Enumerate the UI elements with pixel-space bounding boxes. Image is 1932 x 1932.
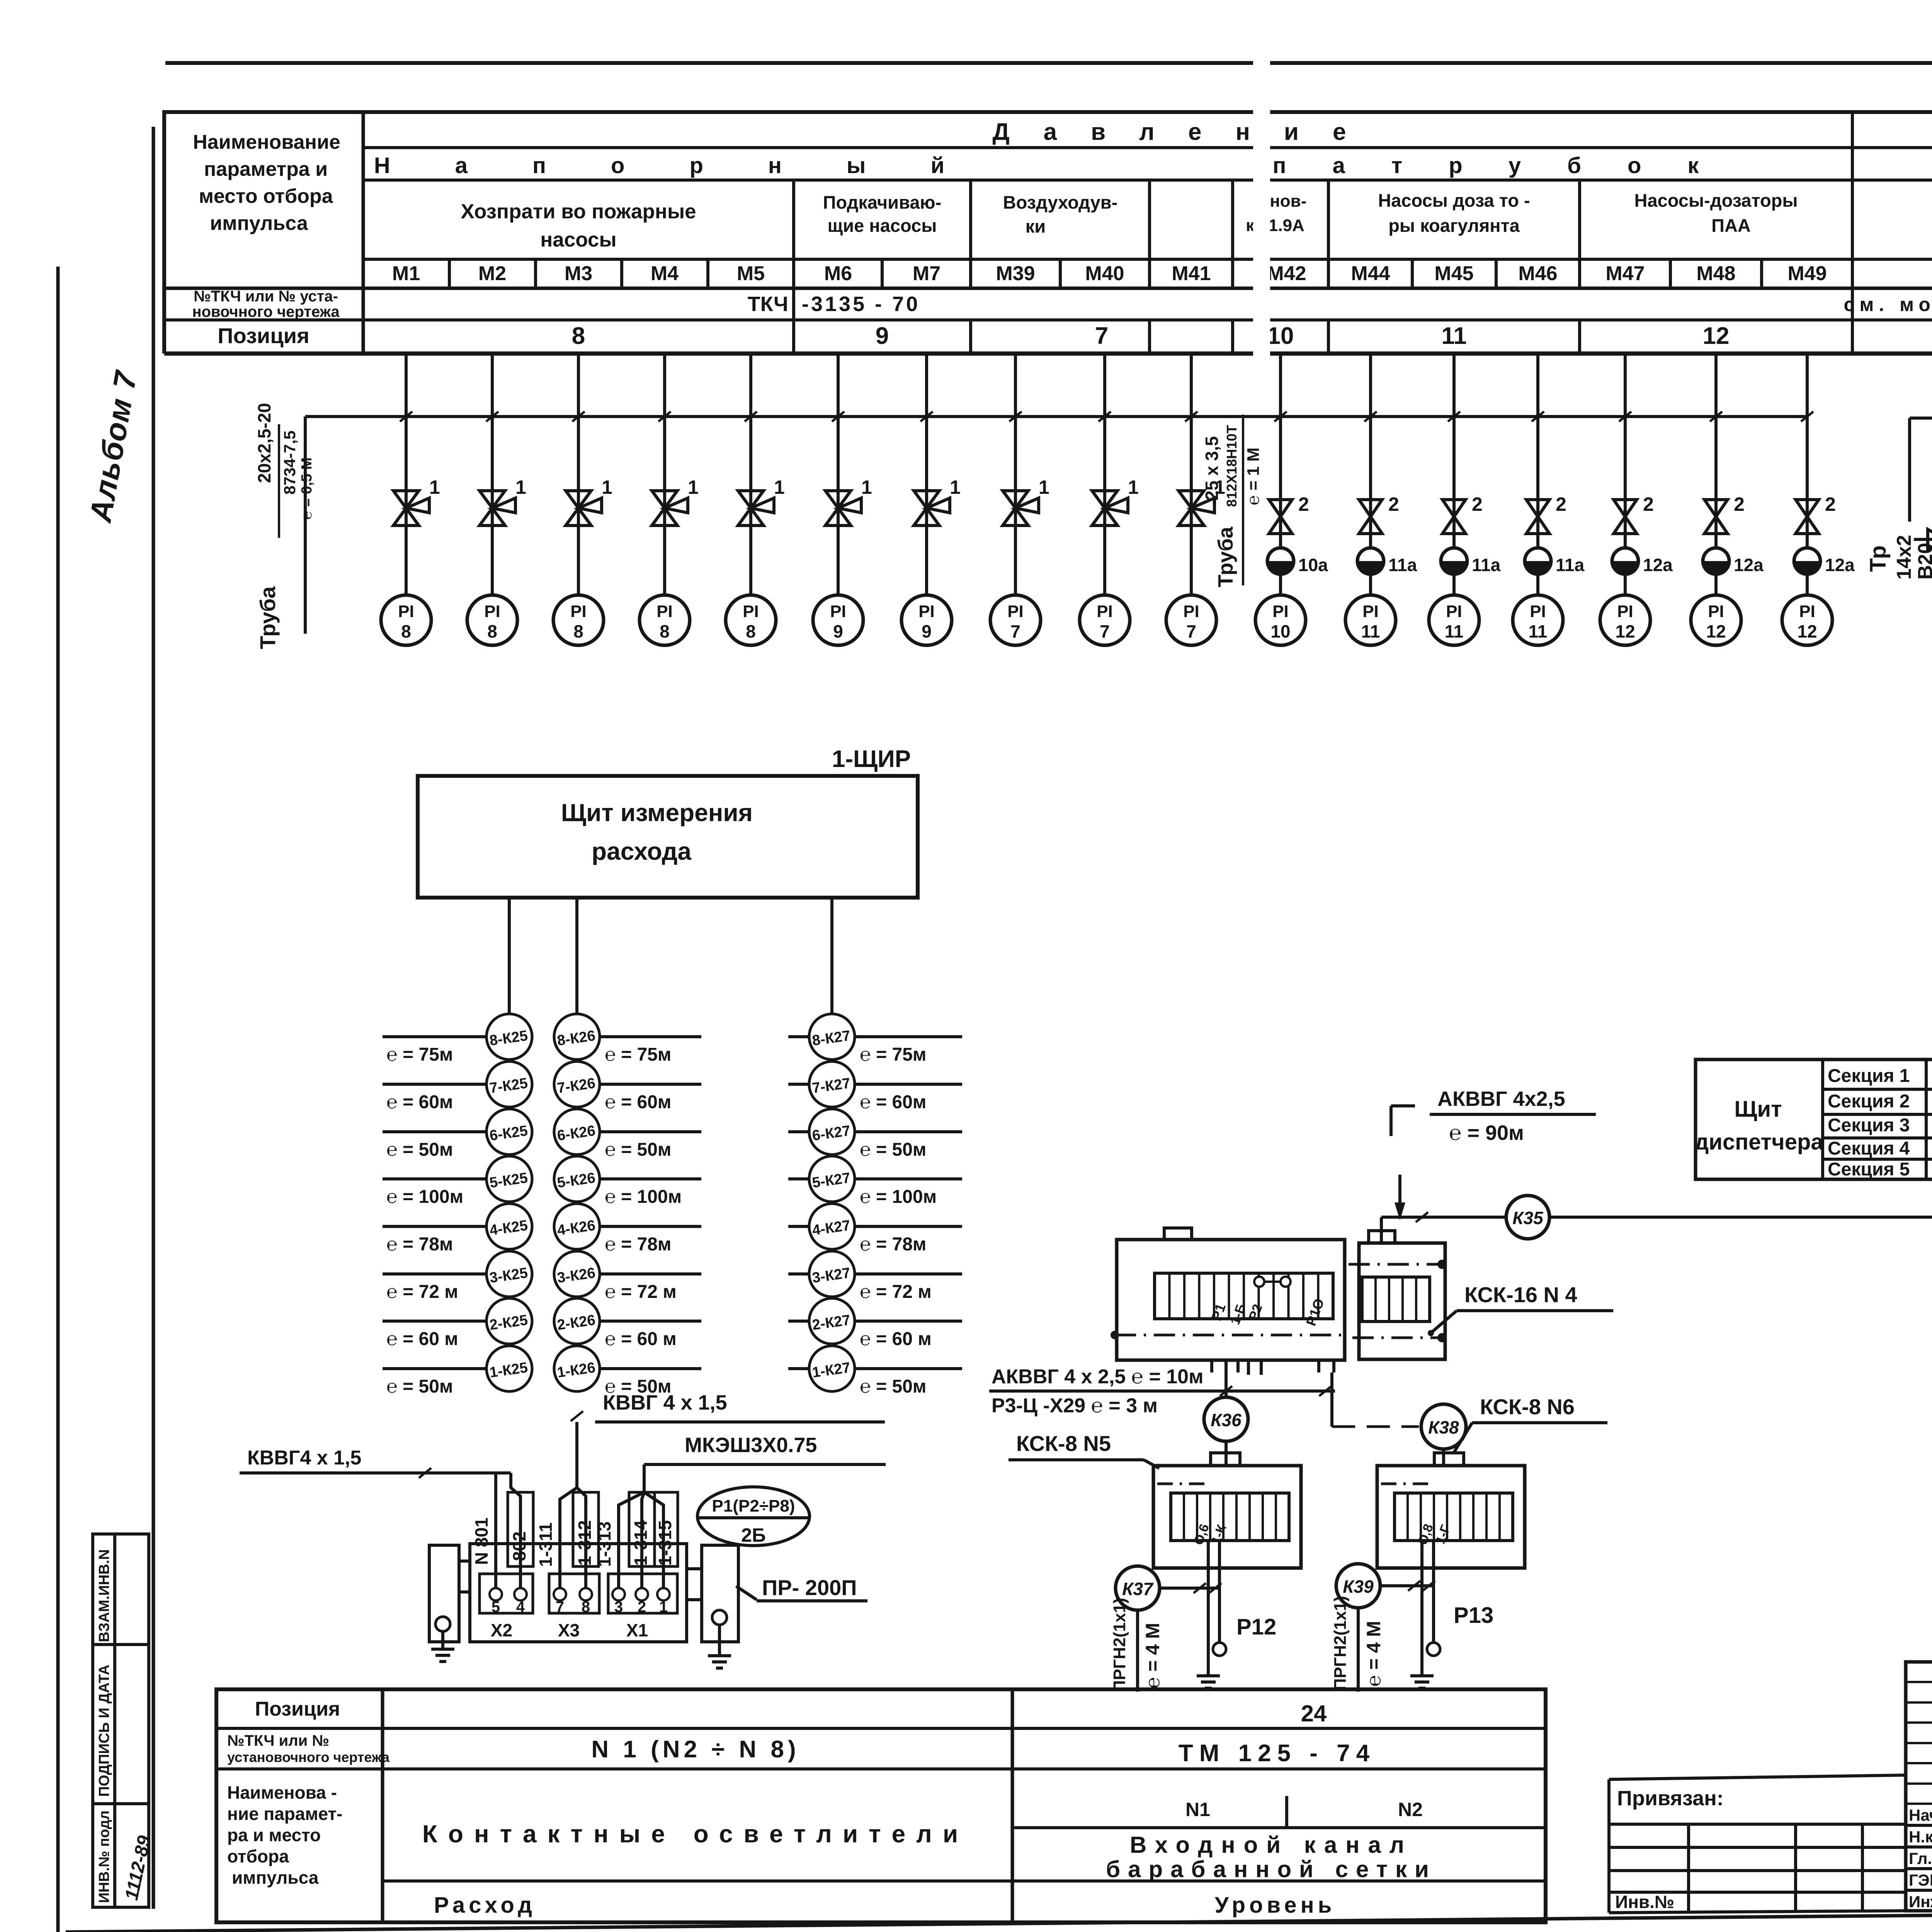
valve 1 on column x=2859 [1092,476,1139,526]
svg-text:8: 8 [746,621,756,641]
svg-text:2: 2 [1825,493,1836,515]
KSK-16 N4 left box [1117,1240,1345,1360]
terminal tag box 1-312 [573,1492,599,1566]
junction circle 2-К26 [554,1298,701,1349]
svg-text:АКВВГ 4х2,5: АКВВГ 4х2,5 [1437,1087,1565,1111]
svg-text:МКЭШ3Х0.75: МКЭШ3Х0.75 [685,1434,817,1457]
junction circle 1-К25 [383,1346,532,1397]
svg-text:7: 7 [556,1599,564,1616]
svg-text:PI: PI [1446,602,1462,621]
margin box vzam inv [93,1534,149,1645]
terminal tag box 1-315 [655,1492,678,1566]
svg-text:ра и место: ра и место [227,1825,321,1845]
svg-text:КСК-8 N5: КСК-8 N5 [1016,1431,1111,1456]
dispatcher panel box [1696,1060,1932,1179]
junction circle 3-К27 [788,1251,962,1302]
junction circle 2-К25 [383,1298,532,1349]
wire K36 to KSK-8 N5 [1225,1441,1228,1466]
svg-text:1-ЩИР: 1-ЩИР [832,746,911,772]
svg-text:ТМ 125 - 74: ТМ 125 - 74 [1179,1740,1376,1767]
label KSK-8 N5 [1009,1431,1159,1468]
svg-text:М1: М1 [392,262,420,285]
valve 2 on column x=3763 [1442,493,1483,534]
KSK-8 N5 electrode circle [1213,1643,1226,1656]
svg-text:Р13: Р13 [1454,1603,1493,1628]
header Napornyj patrubok [374,153,1745,178]
svg-text:место отбора: место отбора [199,185,333,207]
svg-text:℮ = 72 м: ℮ = 72 м [860,1282,932,1302]
svg-text:1: 1 [602,476,612,498]
junction circle 8-К25 [383,1014,532,1065]
svg-text:импульса: импульса [232,1867,319,1888]
pressure gauge PI 9 x=2398 [901,595,952,645]
ground right of PR-200P [708,1625,731,1668]
wire M4x column drop x=4206 [1619,354,1631,595]
bottom table cell TM 125-74 [1179,1740,1376,1767]
svg-text:Х2: Х2 [491,1620,512,1640]
KSK-16 N4 right terminal strip [1362,1277,1430,1321]
KSK-16 N4 strip scribbles [1208,1296,1327,1328]
svg-text:Уровень: Уровень [1215,1893,1336,1918]
valve 1 on column x=1274 [480,476,526,526]
svg-text:PI: PI [484,602,500,621]
wire N801 [494,1473,497,1594]
svg-text:PI: PI [1362,602,1379,621]
svg-text:М40: М40 [1085,262,1124,285]
svg-text:ки: ки [1026,216,1046,236]
panel drop wire column K25 [508,898,511,1391]
svg-text:Щит измерения: Щит измерения [561,799,753,827]
svg-text:М7: М7 [913,262,940,285]
svg-text:М48: М48 [1696,262,1735,285]
header Davlenie [992,119,1380,145]
wire M1 column drop [400,354,412,595]
ground under KSK-8 N5 [1197,1660,1220,1688]
svg-text:℮ = 72 м: ℮ = 72 м [605,1282,677,1302]
cable label KVVG4x1.5 left [240,1447,511,1478]
wire M10 column drop [1185,354,1197,595]
pressure gauge PI 10 x=3314 [1255,595,1306,645]
wire 1-312 [577,1488,586,1594]
junction circle 5-К25 [383,1156,532,1207]
svg-text:℮ = 60 м: ℮ = 60 м [386,1329,458,1349]
svg-text:PI: PI [743,602,759,621]
valve 2 on column x=3314 [1269,493,1309,534]
svg-text:℮ = 60м: ℮ = 60м [860,1092,926,1112]
KSK-16 N4 axis line left [1111,1331,1345,1339]
svg-text:ТКЧ: ТКЧ [748,293,788,316]
junction circle 4-К25 [383,1204,532,1255]
cable marker K38 [1421,1404,1466,1449]
svg-text:ПАА: ПАА [1711,215,1751,236]
junction circle 6-К27 [788,1109,962,1160]
valve 2 on column x=4677 [1796,493,1836,534]
bottom table cell 24 [1301,1701,1327,1726]
svg-text:барабанной сетки: барабанной сетки [1106,1856,1437,1882]
svg-text:К38: К38 [1428,1417,1459,1437]
wire M4x column drop x=3980 [1532,354,1544,595]
svg-text:7: 7 [1095,323,1108,349]
svg-text:Секция 3: Секция 3 [1828,1115,1910,1136]
TKCH row note [1844,294,1932,315]
svg-text:Позиция: Позиция [218,323,310,348]
ground left of PR-200P [431,1631,454,1662]
wire 1-311 [560,1422,577,1594]
svg-text:Инв.№: Инв.№ [1615,1892,1674,1912]
PR-200P left end circle [435,1617,450,1631]
wire M4x column drop x=4441 [1710,354,1722,595]
svg-text:℮ = 50м: ℮ = 50м [860,1139,926,1160]
junction circle 6-К26 [554,1109,701,1160]
svg-text:насосы: насосы [540,228,616,251]
svg-text:11: 11 [1529,621,1548,641]
svg-text:ИНВ.№ подл: ИНВ.№ подл [96,1810,112,1903]
wire K35 horizontal [1381,1212,1932,1222]
svg-text:802: 802 [509,1531,529,1561]
label KSK-8 N6 [1454,1395,1607,1453]
cable marker K39 [1336,1564,1380,1608]
svg-text:8: 8 [572,323,585,349]
svg-text:М47: М47 [1605,262,1645,285]
svg-text:℮ = 50м: ℮ = 50м [860,1376,926,1397]
pressure gauge PI 7 x=2859 [1080,595,1130,645]
KSK-16 N4 axis line right lower [1352,1333,1447,1342]
svg-text:12а: 12а [1643,555,1673,575]
svg-text:N1: N1 [1185,1799,1210,1820]
svg-text:℮ = 60м: ℮ = 60м [605,1092,671,1112]
svg-text:Подкачиваю-: Подкачиваю- [823,192,942,213]
svg-text:2: 2 [1388,493,1399,515]
pressure gauge PI 12 x=4677 [1782,595,1832,645]
diaphragm seal 11а x=3547 [1357,548,1417,575]
svg-text:PI: PI [656,602,673,621]
connector X1 [608,1574,677,1640]
KSK-16 N4 right box top lug [1369,1231,1395,1243]
svg-text:Секция 1: Секция 1 [1828,1066,1910,1086]
junction circle 5-К27 [788,1156,962,1207]
svg-text:Тр: Тр [1866,545,1891,572]
svg-text:7: 7 [1186,621,1196,641]
svg-text:℮ = 78м: ℮ = 78м [860,1234,926,1255]
svg-text:PI: PI [1530,602,1546,621]
svg-text:2: 2 [1298,493,1309,515]
bottom table cell Rashod [434,1893,536,1918]
svg-text:℮ = 100м: ℮ = 100м [860,1187,937,1207]
svg-text:PI: PI [1097,602,1113,621]
svg-text:℮ = 60м: ℮ = 60м [386,1092,453,1112]
label P12 [1236,1614,1276,1639]
svg-text:щие насосы: щие насосы [828,215,937,236]
pressure gauge PI 11 x=3763 [1429,595,1479,645]
bus left corner drop [304,417,307,634]
PR-200P left end box [429,1545,459,1642]
wire M9 column drop [1099,354,1111,595]
wire M2 column drop [486,354,498,595]
bottom table cell Kontaktnye osvetliteli [422,1820,969,1848]
valve 1 on column x=1051 [393,476,440,526]
svg-text:N 1 (N2 ÷ N 8): N 1 (N2 ÷ N 8) [591,1736,799,1763]
svg-text:Секция 2: Секция 2 [1828,1091,1910,1112]
pipe label Truba 20x2.5-20 [254,403,315,649]
svg-text:11а: 11а [1388,555,1417,575]
svg-text:Х1: Х1 [626,1620,648,1640]
svg-text:1: 1 [774,476,785,498]
diaphragm seal 11а x=3980 [1525,548,1585,575]
svg-text:установочного чертежа: установочного чертежа [227,1749,390,1765]
label P13 [1454,1603,1493,1628]
label AKVVG 4x2.5 l=90m [1391,1087,1596,1220]
margin box podpis i data [93,1645,149,1804]
wire K37 link [1160,1583,1221,1593]
column group Podkachivajushchie nasosy [823,192,942,236]
svg-text:20х2,5-20: 20х2,5-20 [254,403,274,483]
wire M3 column drop [572,354,585,595]
svg-text:9: 9 [922,621,932,641]
svg-text:М6: М6 [824,262,852,285]
diaphragm seal 12а x=4677 [1794,548,1855,575]
TKCH row values [748,293,920,316]
label PRGN2 K37 [1110,1598,1163,1692]
pressure gauge PI 11 x=3547 [1345,595,1396,645]
svg-text:ры коагулянта: ры коагулянта [1388,215,1520,236]
margin box inv n podl [93,1804,149,1907]
svg-text:8: 8 [487,621,497,641]
junction circle 8-К27 [788,1014,962,1065]
svg-text:14х2: 14х2 [1893,535,1915,580]
K38 branch dashed link [1332,1425,1419,1428]
flow feed left drop [1908,418,1911,522]
diaphragm seal 11а x=3763 [1441,548,1501,575]
svg-text:ние парамет-: ние парамет- [227,1804,342,1824]
svg-text:Х3: Х3 [558,1620,580,1640]
svg-text:7: 7 [1010,621,1020,641]
junction circle 8-К26 [554,1014,701,1065]
svg-text:1: 1 [1039,476,1049,498]
svg-text:PI: PI [1708,602,1724,621]
svg-text:1: 1 [688,476,699,498]
KSK-16 bottom stub to K36 [1212,1360,1238,1397]
PR-200P right end box [702,1545,738,1642]
svg-text:2: 2 [1472,493,1483,515]
svg-text:1: 1 [659,1599,668,1616]
svg-text:℮ = 50м: ℮ = 50м [386,1139,453,1160]
KSK-16 N4 right box [1359,1243,1445,1359]
pressure gauge PI 8 x=1274 [467,595,517,645]
svg-text:℮ = 100м: ℮ = 100м [605,1187,682,1207]
svg-text:2Б: 2Б [741,1524,766,1546]
PR-200P main box [470,1544,687,1642]
svg-text:Хозпрати во пожарные: Хозпрати во пожарные [461,200,696,223]
terminal tag 1-311 [536,1522,556,1567]
valve 1 on column x=2628 [1003,476,1049,526]
svg-text:Нач.отд: Нач.отд [1909,1806,1932,1824]
valve 2 on column x=3980 [1526,493,1566,534]
label 1-SHCHIR [832,746,911,772]
row label Naimenovanie parametra [193,131,340,235]
junction circle 6-К25 [383,1109,532,1160]
svg-text:М4: М4 [651,262,679,285]
svg-text:см. монтажно -эксплуатационную: см. монтажно -эксплуатационную инструкци… [1844,294,1932,315]
cable marker K35 [1506,1196,1549,1239]
KSK-16 N4 left box top lug [1164,1228,1192,1240]
svg-text:12: 12 [1703,323,1730,349]
svg-text:8734-7,5: 8734-7,5 [281,430,299,495]
svg-text:11а: 11а [1472,555,1501,575]
panel drop wire column K27 [830,898,833,1391]
svg-text:Насосы-дозаторы: Насосы-дозаторы [1634,190,1798,211]
junction circle 7-К27 [788,1061,962,1112]
svg-text:Давление: Давление [992,119,1380,145]
svg-text:3: 3 [614,1599,623,1616]
svg-text:℮ = 50м: ℮ = 50м [386,1376,453,1397]
svg-text:М46: М46 [1518,262,1557,285]
svg-text:9: 9 [833,621,843,641]
svg-text:℮ = 75м: ℮ = 75м [605,1044,671,1065]
wire M4x column drop x=3547 [1364,354,1377,595]
diaphragm seal 12а x=4441 [1703,548,1764,575]
svg-text:℮ = 100м: ℮ = 100м [386,1187,463,1207]
svg-text:℮ = 72 м: ℮ = 72 м [386,1282,458,1302]
svg-text:℮ = 4 М: ℮ = 4 М [1142,1623,1163,1689]
connector X2 [480,1574,533,1640]
svg-text:℮ = 50м: ℮ = 50м [605,1139,671,1160]
svg-text:PI: PI [570,602,587,621]
scan seam [1253,54,1270,404]
pressure gauge PI 8 x=1720 [639,595,690,645]
junction circle 7-К26 [554,1061,701,1112]
pressure gauge PI 7 x=2628 [990,595,1041,645]
privjazan block [1609,1775,1906,1913]
terminal tag box 1-314 [629,1492,655,1566]
wire K35 riser from KSK-16 [1380,1217,1383,1231]
svg-text:12: 12 [1706,621,1726,641]
PR-200P right end circle [712,1610,727,1625]
svg-text:КВВГ 4 х 1,5: КВВГ 4 х 1,5 [603,1391,727,1414]
svg-text:М3: М3 [565,262,592,285]
junction circle 4-К27 [788,1204,962,1255]
wire M4x column drop x=3763 [1448,354,1460,595]
pressure gauge PI 11 x=3980 [1513,595,1563,645]
KSK-8 N6 sensor wires [1422,1541,1434,1660]
svg-text:№ТКЧ или № уста-: №ТКЧ или № уста- [194,288,338,305]
svg-text:К37: К37 [1122,1579,1154,1599]
svg-text:℮ = 75м: ℮ = 75м [860,1044,926,1065]
svg-text:Секция 5: Секция 5 [1828,1159,1910,1180]
row label Pozicia [218,323,310,348]
svg-text:КСК-8 N6: КСК-8 N6 [1480,1395,1575,1419]
column group Hozprotivopozharnye nasosy [461,200,696,251]
svg-text:PI: PI [830,602,846,621]
KSK-8 N5 sensor wires [1208,1541,1219,1660]
pressure gauge PI 12 x=4441 [1691,595,1741,645]
svg-text:отбора: отбора [227,1846,289,1866]
svg-text:8: 8 [573,621,583,641]
wire M4x column drop x=4677 [1801,354,1813,595]
svg-text:1: 1 [429,476,440,498]
svg-text:11: 11 [1361,621,1380,641]
svg-text:PI: PI [1007,602,1024,621]
dispatcher panel section grid [1823,1060,1932,1179]
svg-text:ПРГН2(1х1): ПРГН2(1х1) [1110,1598,1129,1692]
svg-text:℮ = 60 м: ℮ = 60 м [605,1329,677,1349]
bottom table row labels [227,1698,390,1888]
panel drop wire column K26 [575,898,578,1391]
svg-text:2: 2 [1734,493,1745,515]
valve 1 on column x=3083 [1179,476,1225,526]
KSK-16 N4 terminal circles [1254,1277,1291,1287]
svg-text:10: 10 [1267,323,1294,349]
svg-text:℮ = 78м: ℮ = 78м [386,1234,453,1255]
junction circle 3-К26 [554,1251,701,1302]
svg-text:ПР- 200П: ПР- 200П [762,1575,857,1600]
pipe label Truba 25x3.5 [1202,415,1263,587]
wire K39 link [1380,1581,1435,1591]
column group Ustanovka [1246,192,1306,235]
svg-text:Секция 4: Секция 4 [1828,1138,1910,1159]
svg-text:N 801: N 801 [471,1517,492,1565]
svg-text:Насосы доза то -: Насосы доза то - [1378,190,1530,211]
svg-text:М41: М41 [1172,262,1211,285]
svg-text:М39: М39 [996,262,1035,285]
svg-text:Щит: Щит [1734,1097,1782,1122]
terminal tag 1-313 [594,1521,614,1567]
junction circle 7-К25 [383,1061,532,1112]
wire M8 column drop [1009,354,1022,595]
KSK-8 N6 electrode circle [1427,1643,1440,1656]
svg-text:PI: PI [1799,602,1815,621]
bottom table N1 N2 row [1185,1799,1423,1820]
label R3-C-X29 l=3m [992,1395,1158,1417]
pipe label Tr 14x2 / V20 [1866,491,1932,580]
svg-text:ПРГН2(1х1): ПРГН2(1х1) [1331,1596,1350,1690]
wire 1-313 [619,1492,644,1594]
svg-text:2: 2 [638,1599,646,1616]
valve 2 on column x=4206 [1614,493,1654,534]
svg-text:Н.контр: Н.контр [1909,1828,1932,1846]
svg-text:℮ = 78м: ℮ = 78м [605,1234,671,1255]
drawing frame bottom border [66,1908,1932,1932]
pressure gauge PI 9 x=2169 [813,595,863,645]
svg-text:12а: 12а [1734,555,1764,575]
oval P1(P2-P8)/2B [697,1487,810,1546]
KSK-8 N6 box [1377,1453,1525,1568]
svg-text:импульса: импульса [210,212,308,235]
wire M4 column drop [658,354,671,595]
svg-text:ПОДПИСЬ И ДАТА: ПОДПИСЬ И ДАТА [96,1665,112,1797]
svg-text:расхода: расхода [592,837,691,865]
KSK-8 N5 box [1153,1453,1301,1568]
svg-text:К36: К36 [1211,1410,1242,1430]
svg-text:℮ = 75м: ℮ = 75м [386,1044,453,1065]
svg-text:патрубок: патрубок [1273,153,1745,178]
svg-text:9: 9 [876,323,889,349]
valve 1 on column x=1720 [652,476,699,526]
signature rows text [1909,1806,1932,1911]
wire M6 column drop [832,354,844,595]
pozicia row values [572,323,1932,349]
bottom table frame [216,1689,1546,1922]
pressure gauge PI 8 x=1943 [726,595,776,645]
svg-text:М45: М45 [1434,262,1473,285]
cable marker K36 [1204,1397,1248,1441]
wire 1-314 [642,1492,644,1594]
valve 1 on column x=2398 [914,476,961,526]
svg-text:N2: N2 [1398,1799,1423,1820]
M column labels [392,262,1932,285]
svg-text:812Х18Н10Т: 812Х18Н10Т [1224,425,1240,507]
valve 3 stub #1 [1914,499,1932,549]
svg-text:Инж.ПК: Инж.ПК [1909,1893,1932,1911]
